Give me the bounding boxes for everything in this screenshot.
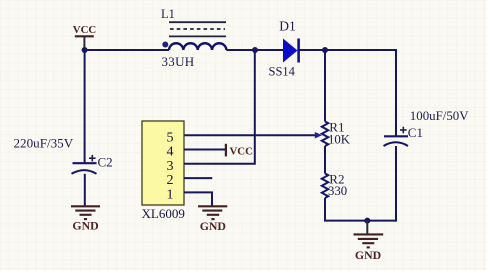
pin 4 wire to VCC xyxy=(184,149,226,151)
svg-text:5: 5 xyxy=(167,131,174,146)
svg-text:SS14: SS14 xyxy=(269,65,296,79)
wire FB from pin 5 to R1 wiper xyxy=(184,134,316,136)
svg-text:3: 3 xyxy=(167,159,174,174)
svg-text:VCC: VCC xyxy=(230,146,253,158)
pin 2 wire stub (no connect) xyxy=(184,177,212,179)
wire R1 to R2 xyxy=(324,146,326,174)
wire C2 down to ground xyxy=(84,174,86,207)
pin 3 wire to node SW xyxy=(184,50,255,164)
resistor R1 (potentiometer) xyxy=(322,120,345,147)
ground symbol GND (below IC) xyxy=(198,206,227,233)
svg-text:C2: C2 xyxy=(98,155,113,170)
svg-text:VCC: VCC xyxy=(73,24,96,36)
svg-text:C1: C1 xyxy=(408,125,423,140)
svg-text:1: 1 xyxy=(167,187,174,202)
svg-text:2: 2 xyxy=(167,173,174,188)
resistor R2 xyxy=(322,172,345,199)
wire VIN horizontal to L1 xyxy=(85,49,169,51)
junction dot node SW (x=255) xyxy=(252,47,258,53)
power symbol VCC (top left) xyxy=(73,24,96,50)
inductor L1 xyxy=(161,7,226,50)
svg-text:220uF/35V: 220uF/35V xyxy=(14,135,74,150)
svg-text:10K: 10K xyxy=(328,133,351,147)
svg-text:330: 330 xyxy=(328,184,347,198)
ground symbol GND (bottom right) xyxy=(354,221,384,263)
ground symbol GND (below C2) xyxy=(71,206,100,232)
junction dot node VOUT xyxy=(322,47,328,53)
wire C1 down to bottom rail xyxy=(395,146,397,222)
diode D1 xyxy=(279,19,298,63)
svg-text:33UH: 33UH xyxy=(162,54,195,69)
wire VOUT corner down to C1 xyxy=(395,49,397,136)
wire D1 cathode to output corner xyxy=(300,49,397,51)
pin 1 wire to ground xyxy=(184,192,212,206)
capacitor C1 (polarized) xyxy=(384,125,423,146)
svg-text:4: 4 xyxy=(167,145,174,160)
svg-text:XL6009: XL6009 xyxy=(142,206,185,221)
svg-text:D1: D1 xyxy=(279,19,296,34)
wire R2 down and bottom rail xyxy=(325,198,396,221)
junction dot bottom ground node xyxy=(364,218,370,224)
junction dot node VIN xyxy=(82,47,88,53)
svg-text:GND: GND xyxy=(200,219,226,233)
power symbol VCC (pin 4) xyxy=(226,144,253,158)
svg-text:100uF/50V: 100uF/50V xyxy=(410,109,469,123)
capacitor C2 (polarized) xyxy=(72,155,113,174)
svg-text:GND: GND xyxy=(355,248,381,262)
IC U1 XL6009 body xyxy=(142,121,184,205)
svg-text:GND: GND xyxy=(72,219,98,233)
R1 wiper arrow xyxy=(315,132,322,139)
wire VIN down to C2 xyxy=(84,50,86,163)
svg-text:L1: L1 xyxy=(161,7,175,21)
wire L1 to D1 anode xyxy=(226,49,283,51)
wire VOUT down to R1 xyxy=(324,50,326,122)
